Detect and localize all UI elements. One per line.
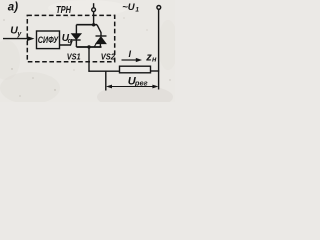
svg-text:1: 1	[135, 7, 139, 14]
svg-text:~U: ~U	[122, 2, 136, 13]
svg-text:н: н	[152, 55, 157, 64]
svg-text:ТРН: ТРН	[56, 5, 72, 16]
svg-text:а): а)	[8, 1, 18, 13]
svg-text:рег: рег	[134, 78, 148, 87]
svg-text:VS2: VS2	[101, 53, 116, 62]
svg-text:VS1: VS1	[67, 53, 81, 62]
svg-text:α: α	[68, 38, 73, 45]
svg-text:СИФУ: СИФУ	[38, 35, 59, 45]
